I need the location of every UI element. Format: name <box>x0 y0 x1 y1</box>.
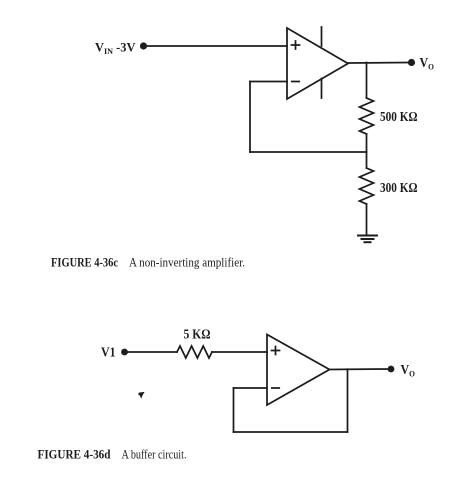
label 300 Kohm <box>380 180 418 195</box>
wire feedback left vertical <box>249 82 251 153</box>
node V1 label <box>101 345 116 360</box>
label 500 Kohm <box>380 109 418 124</box>
wire feedback bottom horizontal <box>234 431 348 433</box>
svg-text:VO: VO <box>420 55 435 72</box>
op-amp U2 plus pin marker <box>272 347 280 355</box>
wire from output node down to R1 <box>366 63 368 99</box>
stray ink mark artifact <box>138 392 144 399</box>
svg-text:5 KΩ: 5 KΩ <box>184 327 211 342</box>
svg-text:300 KΩ: 300 KΩ <box>380 180 418 195</box>
svg-text:A non-inverting amplifier.: A non-inverting amplifier. <box>129 256 245 270</box>
wire from R2 to ground <box>366 204 368 235</box>
wire feedback left vertical <box>233 388 235 432</box>
svg-text:V1: V1 <box>101 345 116 360</box>
wire feedback right vertical (U2 output to bottom rail) <box>347 369 349 432</box>
op-amp U1 plus pin marker <box>292 41 300 49</box>
resistor R2 300 Kohm zigzag <box>360 168 374 204</box>
op-amp U2 minus pin marker <box>272 387 279 389</box>
ground symbol <box>358 236 377 243</box>
wire from U1 output to VO node <box>348 62 408 65</box>
caption FIGURE 4-36c <box>51 256 245 270</box>
resistor R1 500 Kohm zigzag <box>360 98 374 134</box>
node V1 dot <box>121 349 128 356</box>
caption FIGURE 4-36d <box>38 448 187 462</box>
wire from R1 to junction node <box>366 134 368 152</box>
label 5 Kohm <box>184 327 211 342</box>
node VIN dot <box>140 42 147 49</box>
svg-text:VO: VO <box>401 362 416 379</box>
svg-text:A buffer circuit.: A buffer circuit. <box>122 448 187 462</box>
node VO dot (top circuit) <box>408 59 415 66</box>
wire from VIN node to non-inverting input of U1 <box>146 45 287 47</box>
svg-text:FIGURE 4-36d: FIGURE 4-36d <box>38 448 111 462</box>
svg-text:FIGURE 4-36c: FIGURE 4-36c <box>51 256 118 270</box>
wire from R3 to non-inverting input of U2 <box>212 351 267 353</box>
wire feedback horizontal to R1/R2 junction <box>250 151 367 153</box>
node VIN label "V_IN -3V" <box>95 40 136 57</box>
node VO dot (bottom circuit) <box>388 366 395 373</box>
wire from inverting input of U1 to feedback loop <box>250 81 287 83</box>
op-amp U2 triangle <box>267 335 330 406</box>
node VO label (bottom circuit) <box>401 362 416 379</box>
op-amp U1 triangle <box>287 28 348 99</box>
svg-text:VIN -3V: VIN -3V <box>95 40 136 57</box>
node VO label (top circuit) <box>420 55 435 72</box>
resistor R3 5 Kohm zigzag <box>177 346 212 358</box>
op-amp U1 minus pin marker <box>292 81 299 83</box>
wire from V1 node to R3 <box>127 351 177 353</box>
wire from junction node to R2 <box>366 152 368 168</box>
svg-text:500 KΩ: 500 KΩ <box>380 109 418 124</box>
op-amp U1 positive supply pin <box>321 27 323 46</box>
op-amp U1 negative supply pin <box>321 79 323 99</box>
wire feedback to inverting input of U2 <box>234 387 268 389</box>
wire from U2 output to VO node <box>330 368 389 371</box>
